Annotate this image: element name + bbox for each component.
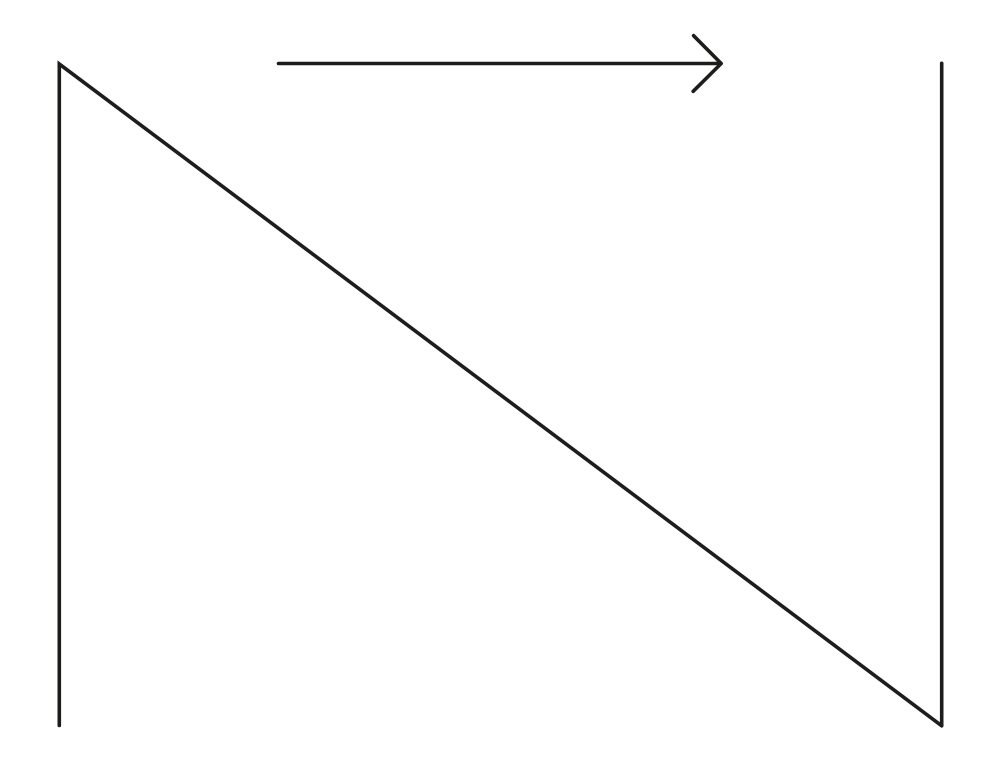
- right vertical line: [940, 63, 944, 725]
- arrowhead chevron: [693, 36, 721, 92]
- sweep trace: left vertical line + diagonal flyback: [59, 64, 941, 726]
- arrow shaft: [279, 62, 721, 66]
